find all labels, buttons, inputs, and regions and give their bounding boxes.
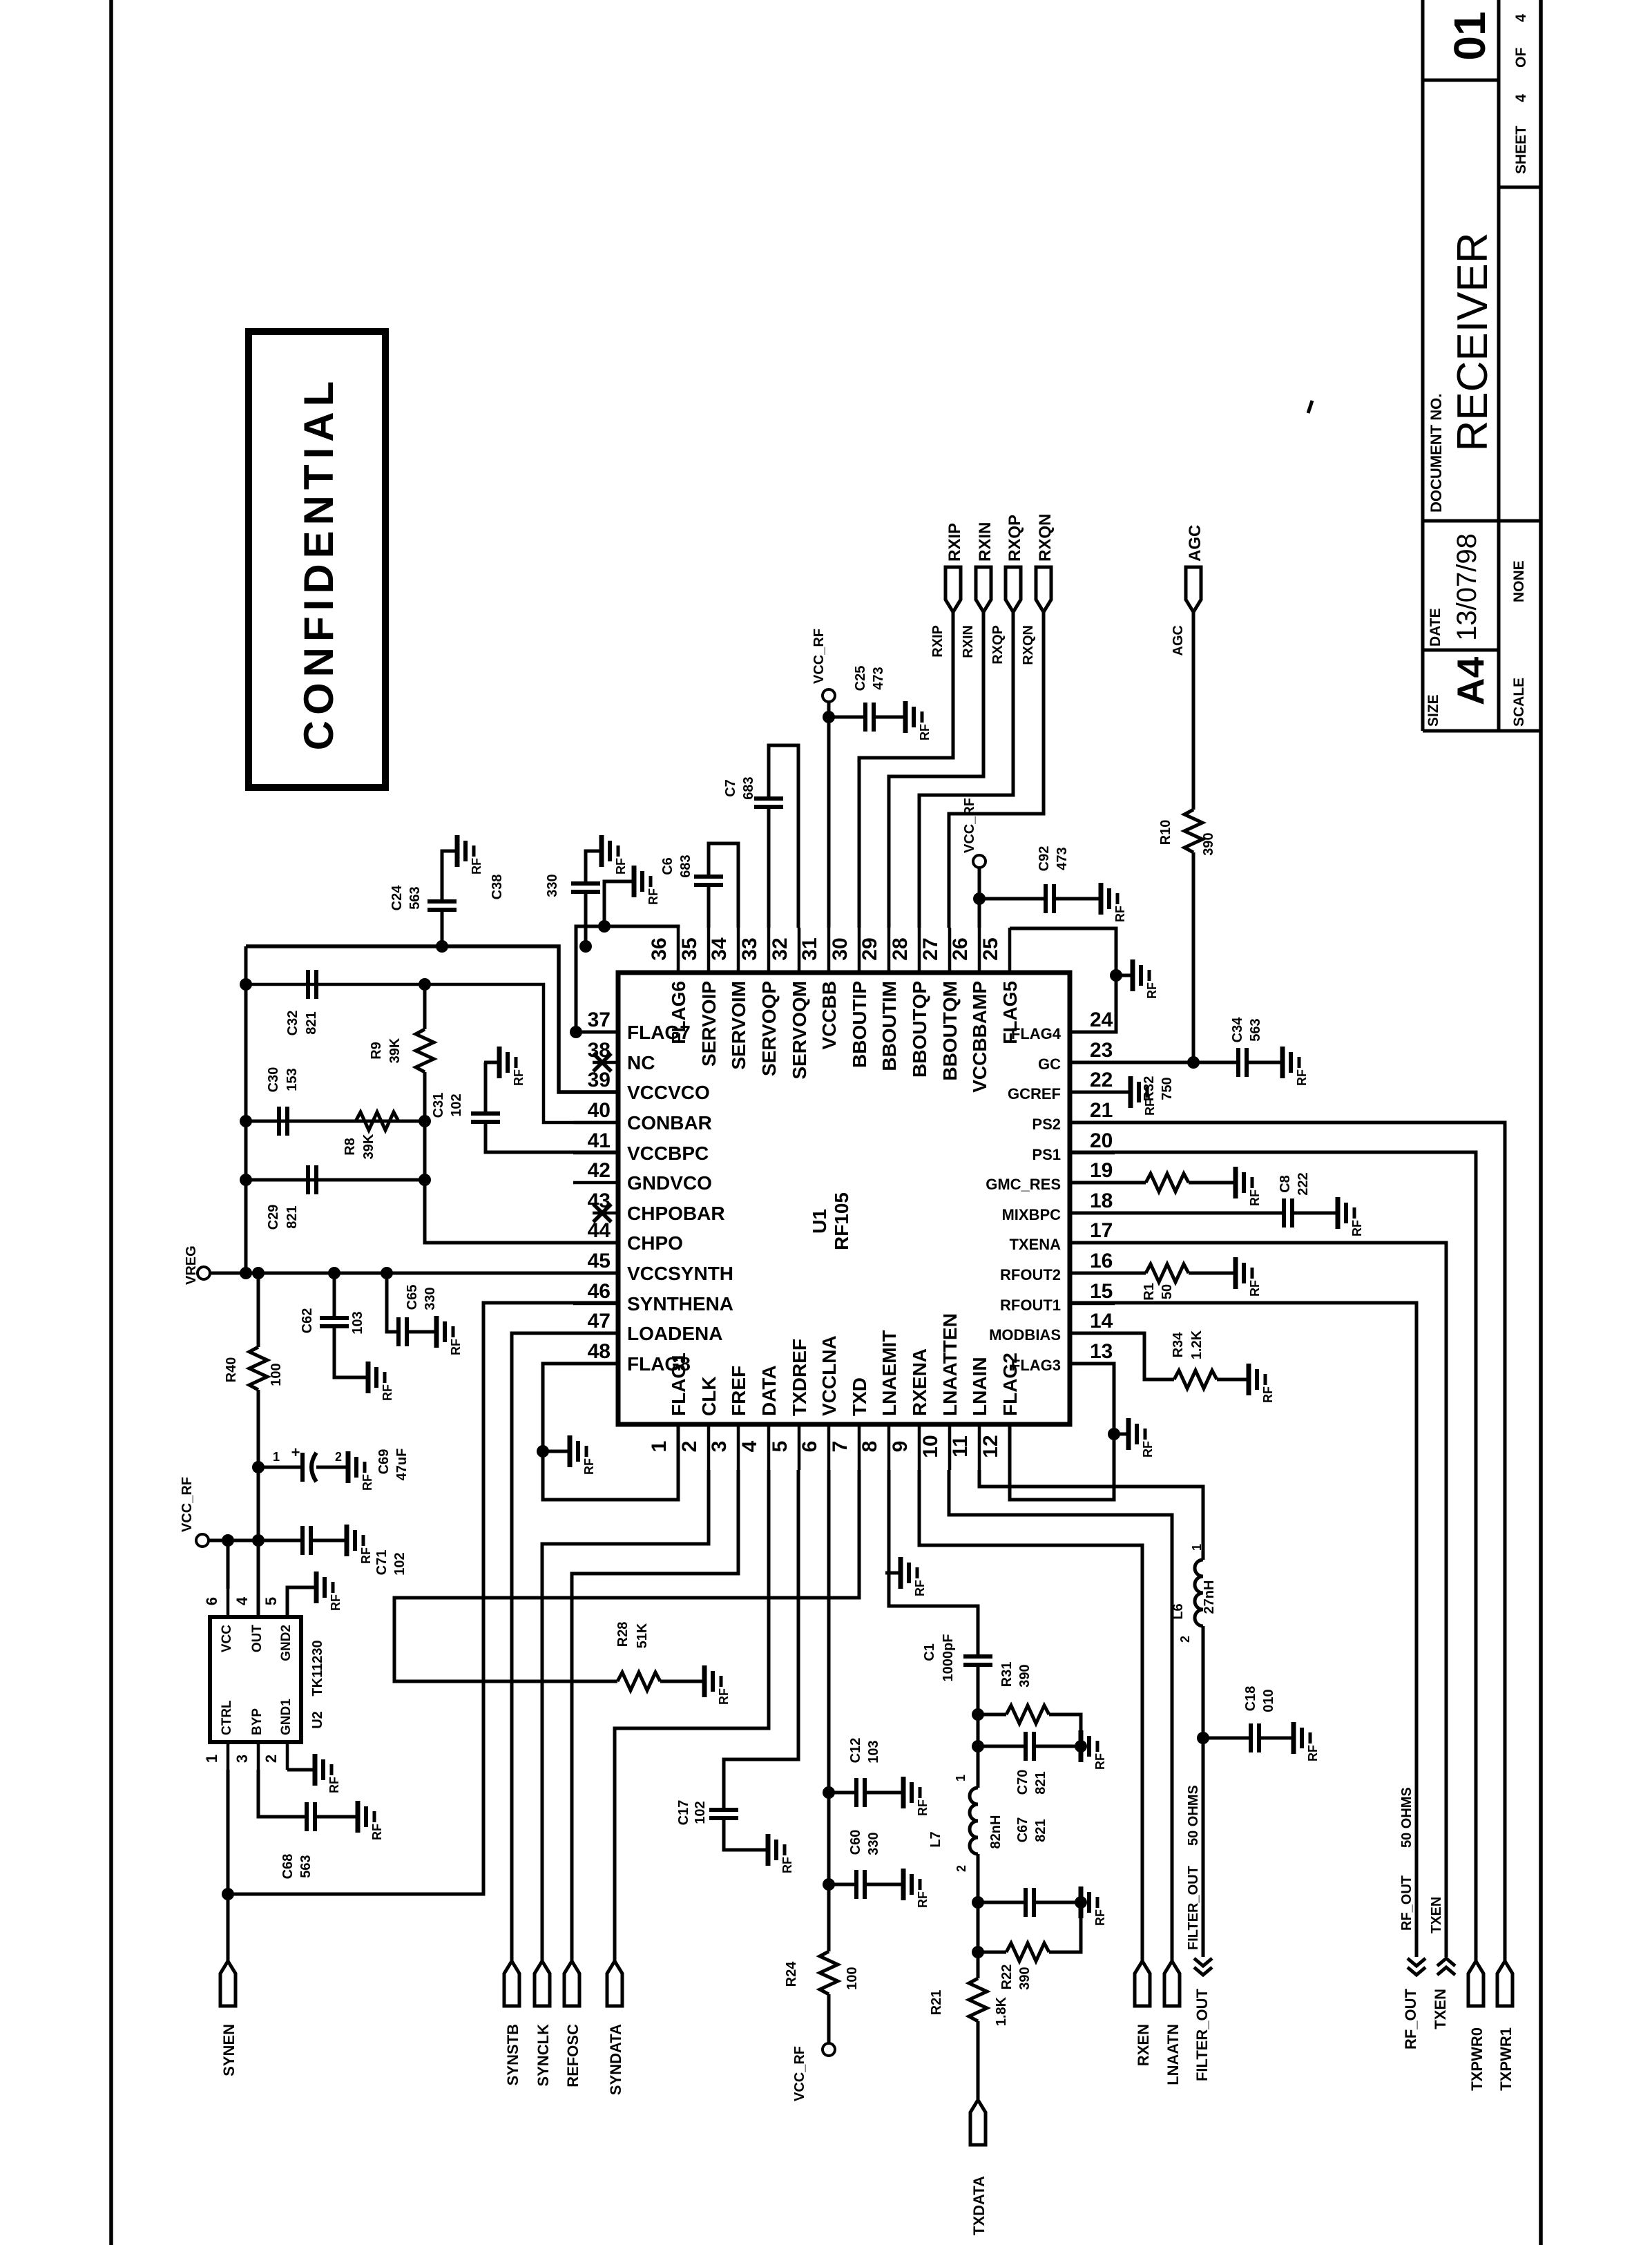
svg-text:RF: RF: [780, 1857, 794, 1873]
wire FLAG3 net ground stem: [1114, 1433, 1128, 1436]
ground R32 / GMC_RES (RF): [1220, 1167, 1262, 1206]
svg-text:473: 473: [1055, 847, 1070, 870]
ground FLAG6/FLAG7 net (RF): [619, 866, 660, 905]
stray apostrophe mark: [1308, 401, 1312, 413]
wire pin 22 GCREF to ground: [1070, 1091, 1131, 1094]
capacitor C6 (between pins 35 and 34): [660, 843, 738, 928]
svg-text:34: 34: [708, 937, 731, 961]
svg-text:LOADENA: LOADENA: [627, 1323, 722, 1344]
ground C68 (RF): [343, 1801, 384, 1840]
U1 pin 20 PS1: [1032, 1129, 1115, 1163]
svg-text:27nH: 27nH: [1202, 1580, 1217, 1614]
svg-text:TXEN: TXEN: [1429, 1897, 1444, 1933]
svg-text:11: 11: [949, 1435, 972, 1458]
svg-text:SERVOIP: SERVOIP: [698, 981, 720, 1067]
CONFIDENTIAL stamp box: [249, 332, 385, 787]
resistor R1: [1070, 1264, 1236, 1301]
svg-text:1: 1: [954, 1775, 968, 1781]
U1 pin 6 VCCLNA: [798, 1335, 840, 1470]
resistor R31: [978, 1662, 1081, 1746]
svg-text:VCCVCO: VCCVCO: [627, 1082, 710, 1103]
svg-text:RF: RF: [1093, 1909, 1107, 1926]
svg-text:330: 330: [545, 874, 560, 897]
U1 pin 8 LNAEMIT: [858, 1330, 900, 1470]
node VREG terminal circle: [198, 1267, 210, 1279]
svg-text:LNAATTEN: LNAATTEN: [939, 1313, 961, 1416]
svg-text:GND2: GND2: [279, 1625, 294, 1661]
connector chevron TXEN (input arrows): [1432, 1958, 1455, 2029]
svg-text:SCALE: SCALE: [1511, 678, 1527, 727]
U1 pin 34 SERVOIM: [708, 928, 749, 1070]
svg-text:26: 26: [949, 937, 972, 960]
connector chevron FILTER_OUT (output arrows): [1193, 1958, 1212, 2081]
border frame right edge: [1539, 0, 1543, 2245]
svg-text:44: 44: [588, 1219, 611, 1242]
svg-text:BBOUTIP: BBOUTIP: [849, 981, 870, 1068]
U1 pin 5 TXDREF: [769, 1339, 810, 1470]
capacitor C1: [922, 1634, 992, 1788]
svg-text:2: 2: [954, 1865, 968, 1872]
U1 pin 43 CHPOBAR: [588, 1190, 725, 1224]
svg-text:DATE: DATE: [1428, 608, 1443, 647]
U1 pin 21 PS2: [1032, 1099, 1115, 1133]
ground C67/R22 (RF): [1066, 1886, 1107, 1926]
U1 pin 41 VCCBPC: [573, 1129, 709, 1164]
ground R28 / TXD (RF): [689, 1665, 731, 1705]
U2 pin 2 GND1: [262, 1699, 294, 1770]
svg-text:R22: R22: [999, 1965, 1015, 1990]
capacitor C65: [387, 1273, 438, 1346]
svg-text:10: 10: [919, 1435, 942, 1458]
resistor R28: [615, 1622, 704, 1690]
U1 pin 33 SERVOQP: [738, 928, 780, 1076]
svg-text:AGC: AGC: [1171, 625, 1186, 656]
svg-text:BYP: BYP: [250, 1708, 265, 1735]
U1 pin 36 FLAG6: [648, 928, 689, 1044]
svg-text:RXIN: RXIN: [976, 522, 995, 562]
svg-text:RF: RF: [1306, 1745, 1320, 1761]
svg-text:8: 8: [858, 1441, 881, 1453]
resistor R8: [343, 1112, 398, 1159]
svg-text:R1: R1: [1142, 1283, 1157, 1301]
U1 pin 38 NC: [588, 1039, 655, 1073]
svg-text:50 OHMS: 50 OHMS: [1399, 1787, 1414, 1848]
svg-text:RF: RF: [1295, 1069, 1309, 1086]
wire U2 pin2 to ground: [287, 1768, 315, 1772]
svg-text:821: 821: [1033, 1771, 1048, 1794]
svg-text:821: 821: [285, 1205, 300, 1228]
svg-text:563: 563: [1248, 1018, 1263, 1041]
svg-text:22: 22: [1090, 1069, 1113, 1091]
svg-text:RF: RF: [913, 1580, 927, 1596]
wire FLAG8 net ground stem: [543, 1450, 570, 1453]
svg-text:390: 390: [1201, 832, 1216, 855]
svg-text:50 OHMS: 50 OHMS: [1186, 1785, 1201, 1846]
ground R34 / MODBIAS (RF): [1233, 1364, 1275, 1403]
svg-text:RFOUT1: RFOUT1: [1000, 1297, 1061, 1314]
ground C71 (RF): [332, 1525, 373, 1564]
U1 pin 31 VCCBB: [798, 928, 840, 1050]
connector terminal SYNEN: [220, 1961, 238, 2076]
wire C29 bus and drop to pin 44 CHPO: [246, 1178, 425, 1182]
op-amp U1 RF105 IC body: [618, 973, 1070, 1424]
svg-text:R28: R28: [615, 1622, 631, 1647]
svg-text:RF: RF: [614, 858, 628, 875]
capacitor C68: [258, 1770, 358, 1879]
svg-text:FLAG2: FLAG2: [999, 1353, 1021, 1416]
svg-text:C65: C65: [405, 1285, 420, 1310]
svg-text:51K: 51K: [635, 1623, 650, 1648]
svg-text:42: 42: [588, 1159, 611, 1182]
svg-text:SERVOQP: SERVOQP: [758, 981, 780, 1076]
ground R31/C70 (RF): [1066, 1730, 1107, 1770]
wire SYNCLK net: pin 2 CLK to SYNCLK connector: [542, 1470, 709, 1961]
svg-text:12: 12: [979, 1435, 1002, 1458]
ground C24 (RF): [442, 835, 483, 875]
U1 pin 16 RFOUT2: [1000, 1250, 1115, 1283]
wire FLAG6 net ground stem: [604, 881, 634, 926]
svg-text:R24: R24: [784, 1961, 799, 1987]
node VCC_RF circle (regulator rail): [196, 1534, 209, 1547]
connector terminal TXDATA: [970, 2100, 988, 2235]
svg-text:RF: RF: [329, 1594, 343, 1611]
svg-text:40: 40: [588, 1099, 611, 1122]
connector terminal SYNDATA: [607, 1961, 624, 2095]
svg-text:RF: RF: [1093, 1753, 1107, 1770]
svg-text:27: 27: [919, 937, 942, 960]
capacitor C69 (electrolytic): [258, 1444, 410, 1482]
U1 pin 48 FLAG8: [573, 1340, 691, 1375]
svg-text:1.2K: 1.2K: [1189, 1330, 1204, 1359]
capacitor C38: [490, 851, 602, 946]
title block grid: [1423, 0, 1541, 731]
svg-text:DATA: DATA: [758, 1365, 780, 1416]
svg-text:39K: 39K: [387, 1038, 403, 1063]
svg-text:43: 43: [588, 1190, 611, 1212]
svg-text:PS1: PS1: [1032, 1146, 1061, 1163]
ground LNAEMIT (RF): [885, 1557, 927, 1596]
svg-text:1: 1: [1190, 1544, 1204, 1551]
svg-text:RF: RF: [646, 888, 660, 905]
wire RXIN to BBOUT pin: [889, 612, 983, 928]
U1 pin 19 GMC_RES: [986, 1159, 1115, 1193]
svg-text:TXPWR0: TXPWR0: [1468, 2027, 1486, 2091]
svg-text:RF: RF: [916, 1799, 930, 1816]
svg-text:46: 46: [588, 1280, 611, 1303]
U1 pin 24 FLAG4: [1011, 1009, 1115, 1042]
svg-text:LNAIN: LNAIN: [969, 1357, 990, 1416]
wire SYNEN net: pin 46 SYNTHENA to U2 CTRL and SYNEN connector: [228, 1303, 618, 1894]
svg-text:153: 153: [285, 1068, 300, 1091]
svg-text:25: 25: [979, 937, 1002, 960]
svg-text:01: 01: [1445, 11, 1495, 60]
svg-text:C30: C30: [266, 1067, 281, 1093]
wire left column joining C24 bus, C32 bus, C30 bus, C29 bus to VREG: [244, 946, 248, 1273]
wire LNAEMIT ground stem: [889, 1571, 901, 1575]
svg-text:50: 50: [1160, 1284, 1175, 1299]
svg-text:TK11230: TK11230: [310, 1640, 325, 1696]
svg-text:3: 3: [233, 1755, 251, 1763]
wire VCC_RF rail down to U2 VCC pin 6: [227, 1540, 230, 1589]
svg-text:16: 16: [1090, 1250, 1113, 1272]
ground R1 / RFOUT2 (RF): [1220, 1257, 1262, 1297]
svg-text:FLAG5: FLAG5: [999, 981, 1021, 1044]
svg-text:FLAG6: FLAG6: [668, 981, 689, 1044]
svg-text:45: 45: [588, 1250, 611, 1272]
capacitor C70: [978, 1732, 1081, 1795]
capacitor C67: [978, 1817, 1081, 1917]
svg-text:7: 7: [829, 1441, 852, 1453]
svg-text:821: 821: [304, 1011, 319, 1034]
svg-text:REFOSC: REFOSC: [564, 2024, 582, 2088]
svg-text:RF: RF: [512, 1069, 526, 1086]
svg-text:2: 2: [262, 1755, 280, 1763]
svg-text:RF: RF: [582, 1458, 596, 1475]
svg-text:RF: RF: [470, 858, 483, 875]
svg-text:4: 4: [1513, 94, 1529, 102]
ground C38 (RF): [586, 835, 628, 875]
svg-text:GCREF: GCREF: [1008, 1085, 1061, 1102]
svg-text:100: 100: [845, 1967, 860, 1989]
svg-text:1: 1: [203, 1755, 220, 1763]
svg-text:R34: R34: [1171, 1332, 1186, 1358]
wire VREG bus to pin 45 VCCSYNTH: [210, 1272, 618, 1275]
svg-text:821: 821: [1033, 1819, 1048, 1842]
svg-text:33: 33: [738, 937, 761, 960]
ground C12 (RF): [888, 1777, 930, 1816]
svg-text:2: 2: [335, 1450, 342, 1464]
svg-text:RXQP: RXQP: [990, 625, 1006, 665]
ground C62 (RF): [353, 1362, 394, 1401]
svg-text:R32: R32: [1142, 1076, 1157, 1102]
wire PS2 (pin 21) to TXPWR1: [1070, 1122, 1505, 1961]
U1 pin 44 CHPO: [573, 1219, 683, 1254]
U1 pin 2 CLK: [678, 1376, 720, 1470]
resistor R24: [784, 1951, 860, 2043]
svg-text:1.8K: 1.8K: [994, 1996, 1009, 2026]
wire RFOUT1 (pin 15) to RF_OUT chevron: [1070, 1303, 1416, 1957]
wire VCC_RF to pin 31 VCCBB: [827, 702, 831, 928]
svg-text:390: 390: [1017, 1967, 1032, 1989]
U2 pin 4 OUT: [233, 1589, 265, 1652]
U1 pin 42 GNDVCO: [573, 1159, 712, 1194]
U1 pin 29 BBOUTIM: [858, 928, 900, 1071]
capacitor C24: [390, 851, 457, 946]
svg-text:15: 15: [1090, 1280, 1113, 1303]
resistor R9: [369, 984, 434, 1121]
svg-text:MODBIAS: MODBIAS: [989, 1326, 1061, 1344]
svg-text:563: 563: [407, 886, 423, 909]
svg-text:36: 36: [648, 937, 671, 960]
capacitor C92: [979, 846, 1101, 913]
svg-text:SYNEN: SYNEN: [220, 2024, 238, 2076]
ground C31 (RF): [484, 1047, 526, 1086]
svg-text:102: 102: [392, 1552, 407, 1575]
capacitor C12: [829, 1738, 903, 1807]
svg-text:TXPWR1: TXPWR1: [1497, 2027, 1515, 2091]
resistor R34: [1070, 1330, 1249, 1388]
svg-text:5: 5: [769, 1441, 791, 1453]
svg-text:VCC: VCC: [220, 1625, 234, 1652]
U1 pin 17 TXENA: [1009, 1219, 1115, 1253]
svg-text:C7: C7: [723, 779, 738, 797]
svg-text:32: 32: [769, 937, 791, 960]
ground FLAG3/FLAG2 net (RF): [1113, 1418, 1155, 1458]
connector terminal RXIP: [945, 523, 964, 612]
svg-text:31: 31: [798, 937, 821, 960]
svg-text:RXIN: RXIN: [961, 625, 976, 658]
connector terminal LNAATN: [1164, 1961, 1182, 2085]
svg-text:35: 35: [678, 937, 701, 960]
svg-text:RF: RF: [1113, 906, 1127, 922]
svg-text:VCCBBAMP: VCCBBAMP: [969, 981, 990, 1093]
svg-text:38: 38: [588, 1039, 611, 1062]
connector terminal SYNCLK: [535, 1961, 552, 2086]
ground GCREF (RF): [1115, 1076, 1157, 1116]
U1 pin 15 RFOUT1: [1000, 1280, 1115, 1314]
svg-text:RXIP: RXIP: [930, 625, 945, 658]
wire FLAG3 (pin13) to FLAG2 (pin12): [1010, 1364, 1114, 1500]
capacitor C7 (between pins 33 and 32): [723, 745, 798, 928]
svg-text:48: 48: [588, 1340, 611, 1363]
svg-text:FREF: FREF: [728, 1366, 749, 1416]
ground C8 / MIXBPC (RF): [1323, 1197, 1364, 1236]
wire FLAG6 to FLAG7 link (pins 36-37): [576, 926, 678, 1032]
svg-text:C32: C32: [285, 1011, 300, 1036]
svg-text:A4: A4: [1449, 656, 1492, 705]
svg-text:C69: C69: [376, 1449, 392, 1475]
svg-text:VCCLNA: VCCLNA: [818, 1335, 840, 1416]
U1 pin 1 FLAG1: [648, 1353, 689, 1470]
svg-text:C31: C31: [431, 1093, 446, 1118]
svg-text:RXQN: RXQN: [1036, 514, 1055, 562]
svg-text:37: 37: [588, 1009, 611, 1031]
svg-text:R21: R21: [929, 1990, 944, 2016]
svg-text:102: 102: [693, 1801, 708, 1824]
U1 pin 10 LNAATTEN: [919, 1313, 961, 1470]
svg-text:SYNDATA: SYNDATA: [607, 2024, 624, 2095]
svg-text:RF: RF: [381, 1384, 394, 1401]
svg-text:CHPOBAR: CHPOBAR: [627, 1203, 725, 1224]
U1 pin 47 LOADENA: [573, 1310, 722, 1344]
U1 pin 14 MODBIAS: [989, 1310, 1115, 1344]
node VCC_RF circle (R24 feed): [823, 2043, 835, 2056]
svg-text:R10: R10: [1158, 820, 1173, 846]
connector terminal RXEN: [1135, 1961, 1152, 2066]
wire SYNDATA net: pin 4 DATA to SYNDATA connector: [615, 1470, 769, 1961]
resistor R21: [929, 1978, 1009, 2100]
wire REFOSC net: pin 3 FREF to REFOSC connector: [572, 1470, 738, 1961]
connector terminal RXQN: [1036, 514, 1055, 612]
wire pin 23 GC to C34: [1070, 1061, 1238, 1064]
wire C32 bus (CONBAR net to pin 40): [246, 984, 618, 1122]
svg-text:CHPO: CHPO: [627, 1232, 683, 1254]
svg-text:222: 222: [1296, 1172, 1311, 1195]
svg-text:TXENA: TXENA: [1009, 1236, 1061, 1253]
resistor R32: [1070, 1076, 1236, 1192]
svg-text:RF: RF: [1248, 1280, 1262, 1297]
svg-text:VCC_RF: VCC_RF: [811, 629, 827, 684]
U1 pin 18 MIXBPC: [1001, 1190, 1115, 1223]
capacitor C62: [300, 1273, 368, 1377]
svg-text:RF: RF: [327, 1777, 341, 1793]
svg-text:L6: L6: [1171, 1603, 1186, 1619]
U1 pin 22 GCREF: [1008, 1069, 1115, 1102]
svg-text:TXD: TXD: [849, 1377, 870, 1416]
U1 pin 12 FLAG2: [979, 1353, 1021, 1470]
border frame left edge: [109, 0, 113, 2245]
svg-text:330: 330: [866, 1832, 881, 1855]
capacitor C31: [431, 1062, 618, 1152]
svg-text:FILTER_OUT: FILTER_OUT: [1193, 1988, 1211, 2081]
svg-text:29: 29: [858, 937, 881, 960]
U1 pin 7 TXD: [829, 1377, 870, 1470]
U1 pin 26 VCCBBAMP: [949, 928, 990, 1093]
svg-text:C62: C62: [300, 1308, 315, 1334]
svg-text:RF: RF: [916, 1891, 930, 1908]
resistor R40: [224, 1273, 284, 1617]
connector terminal RXIN: [976, 522, 995, 612]
svg-text:82nH: 82nH: [988, 1815, 1003, 1849]
svg-text:39K: 39K: [361, 1134, 376, 1159]
capacitor C18: [1203, 1686, 1294, 1752]
svg-text:VCC_RF: VCC_RF: [180, 1477, 195, 1532]
svg-text:41: 41: [588, 1129, 611, 1152]
U2 pin 3 BYP: [233, 1708, 265, 1770]
svg-text:SIZE: SIZE: [1425, 694, 1441, 727]
svg-text:TXDREF: TXDREF: [789, 1339, 810, 1416]
svg-text:47uF: 47uF: [394, 1449, 410, 1481]
svg-text:4: 4: [233, 1596, 251, 1605]
svg-text:RF: RF: [1141, 1441, 1155, 1458]
svg-text:010: 010: [1261, 1689, 1276, 1712]
svg-text:C18: C18: [1243, 1686, 1258, 1712]
wire LNAIN (pin 11) to L6: [979, 1470, 1203, 1560]
svg-text:683: 683: [678, 854, 693, 877]
ground U2 pin2 (RF): [300, 1754, 341, 1793]
connector chevron RF_OUT (output arrows): [1402, 1958, 1425, 2050]
U1 pin 35 SERVOIP: [678, 928, 720, 1067]
svg-text:NC: NC: [627, 1052, 655, 1073]
svg-text:LNAEMIT: LNAEMIT: [878, 1330, 900, 1416]
ground C17 (RF): [753, 1834, 794, 1873]
svg-text:CLK: CLK: [698, 1376, 720, 1416]
U1 pin 39 VCCVCO: [573, 1069, 710, 1103]
U1 pin 37 FLAG7: [573, 1009, 691, 1043]
wire C30 bus: [246, 1120, 425, 1123]
svg-text:C68: C68: [280, 1854, 296, 1880]
capacitor C34: [1230, 1017, 1283, 1077]
svg-text:RF: RF: [1350, 1220, 1364, 1236]
svg-text:C38: C38: [490, 875, 505, 900]
svg-text:RF: RF: [918, 724, 932, 741]
svg-text:1: 1: [648, 1441, 671, 1453]
ground C92 (RF): [1086, 883, 1127, 922]
svg-text:NONE: NONE: [1511, 560, 1527, 602]
wire VCCLNA (pin 6) feed column: [827, 1470, 831, 1951]
wire VCC_RF to pin 26 VCCBBAMP: [978, 868, 981, 928]
svg-text:CTRL: CTRL: [220, 1700, 234, 1735]
svg-text:SERVOIM: SERVOIM: [728, 981, 749, 1070]
U1 pin 27 BBOUTQM: [919, 928, 961, 1081]
ground FLAG8/FLAG1 net (RF): [555, 1435, 596, 1475]
ground U2 pin5 (RF): [301, 1571, 343, 1611]
wire VCC_RF rail to C71: [209, 1539, 302, 1542]
svg-text:CONBAR: CONBAR: [627, 1112, 712, 1134]
wire FLAG5 (pin25) to FLAG4 (pin24): [1010, 928, 1116, 1032]
svg-text:C71: C71: [374, 1550, 390, 1576]
svg-text:9: 9: [889, 1441, 912, 1453]
